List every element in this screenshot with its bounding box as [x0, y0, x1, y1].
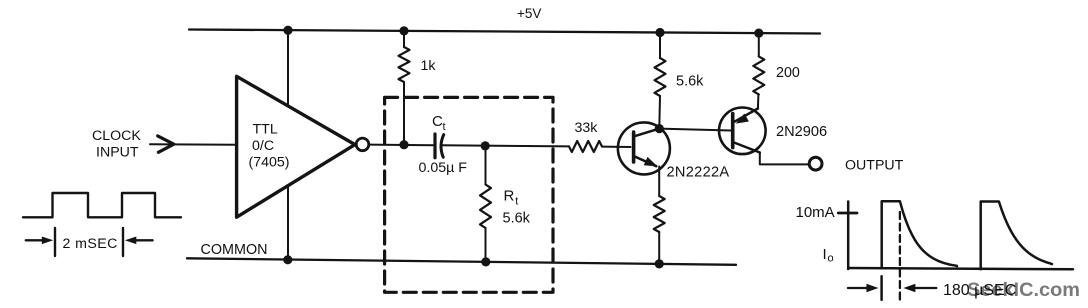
resistor R3 5.6k (collector load)	[659, 33, 661, 59]
clock waveform	[23, 193, 181, 217]
wire: 33k to Q1 base	[602, 146, 631, 148]
wire: inverter ground pin	[287, 186, 289, 260]
svg-text:SeekIC.com: SeekIC.com	[967, 279, 1080, 301]
svg-text:OUTPUT: OUTPUT	[845, 157, 904, 173]
svg-text:INPUT: INPUT	[96, 144, 139, 160]
node: common-3.6k junction	[655, 259, 664, 268]
wire: inverter power pin	[287, 30, 289, 106]
svg-text:1k: 1k	[421, 58, 437, 74]
wire: clock input with arrowhead	[150, 143, 237, 145]
transistor Q2 2N2906	[719, 108, 766, 155]
resistor R1 1k	[403, 31, 405, 47]
svg-text:C: C	[432, 113, 443, 130]
wire: Q1 emitter to 3.6k	[658, 167, 660, 197]
wire: Q2 emitter to 200	[757, 94, 760, 108]
svg-text:2 mSEC: 2 mSEC	[63, 236, 118, 252]
wire: bubble to capacitor	[369, 144, 434, 147]
svg-text:10mA: 10mA	[796, 204, 835, 221]
svg-text:2N2222A: 2N2222A	[667, 164, 730, 180]
inverter output bubble	[356, 138, 369, 151]
node: Q1 collector junction	[655, 124, 664, 133]
dashed timing network box	[385, 97, 553, 292]
output waveform pulse 1	[882, 201, 957, 268]
capacitor Ct plates	[433, 134, 436, 158]
svg-text:5.6k: 5.6k	[503, 210, 531, 226]
node: Ct-Rt junction	[481, 141, 490, 150]
node: rail to 200 junction	[754, 28, 763, 37]
clock period dimension arrows	[26, 239, 43, 241]
svg-text:CLOCK: CLOCK	[92, 128, 141, 144]
svg-text:o: o	[828, 253, 834, 265]
node: common-Rt junction	[481, 257, 490, 266]
svg-text:t: t	[443, 121, 446, 133]
svg-text:R: R	[504, 188, 515, 205]
resistor R2 33k	[569, 141, 602, 152]
svg-text:2N2906: 2N2906	[776, 124, 827, 140]
svg-text:0/C: 0/C	[252, 138, 274, 154]
svg-text:COMMON: COMMON	[201, 241, 268, 258]
svg-text:TTL: TTL	[253, 122, 278, 138]
resistor Rt 5.6k	[485, 146, 487, 185]
svg-text:0.05µ F: 0.05µ F	[419, 160, 468, 176]
COMMON rail	[187, 258, 736, 265]
output waveform pulse 2	[981, 202, 1052, 270]
svg-text:200: 200	[776, 65, 800, 81]
node: rail to 5.6k junction	[655, 28, 664, 37]
svg-text:5.6k: 5.6k	[676, 74, 704, 90]
resistor R4 200	[758, 33, 760, 56]
pulse width dimension arrows	[848, 287, 868, 289]
transistor Q1 2N2222A	[618, 122, 670, 174]
wire: capacitor to Ct-Rt node and on to 33k	[441, 145, 569, 146]
10mA tick	[838, 212, 857, 215]
svg-text:t: t	[515, 196, 518, 208]
inverter U1 triangle (7405)	[237, 76, 355, 217]
node: common-inverter junction	[283, 255, 292, 264]
resistor R5 3.6k	[654, 196, 665, 232]
wire: Q1 collector to Q2 base	[659, 129, 731, 131]
svg-text:33k: 33k	[575, 120, 599, 136]
pulse width dashed line	[899, 212, 901, 300]
node: 1k to signal line junction	[399, 140, 408, 149]
node: rail to 1k junction	[399, 26, 408, 35]
output waveform axes	[847, 202, 850, 270]
wire: Q2 collector to output terminal	[760, 153, 809, 165]
pulse width dimension tick	[880, 276, 883, 299]
svg-text:I: I	[823, 246, 827, 263]
output terminal	[809, 157, 822, 170]
+5V rail	[189, 30, 820, 34]
svg-text:(7405): (7405)	[249, 155, 290, 171]
clock period dimension ticks	[54, 228, 56, 256]
svg-text:+5V: +5V	[517, 6, 541, 21]
node: rail to inverter power junction	[283, 26, 292, 35]
